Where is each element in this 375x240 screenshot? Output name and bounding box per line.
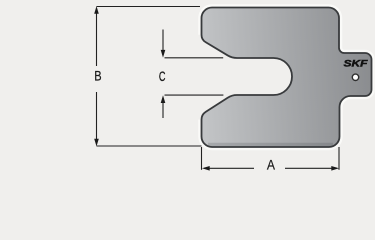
svg-text:A: A bbox=[267, 157, 275, 173]
dimension A line bbox=[204, 167, 254, 169]
dimension C arrows bbox=[162, 30, 164, 52]
extension line C bottom bbox=[165, 94, 224, 96]
extension line A right bbox=[338, 147, 340, 170]
svg-text:C: C bbox=[159, 69, 166, 84]
arrow C bottom (points up) bbox=[161, 95, 166, 103]
svg-text:B: B bbox=[94, 68, 101, 83]
arrow A right bbox=[331, 166, 339, 171]
shim plate body (slotted shim outline) bbox=[202, 8, 372, 148]
extension line top (B) bbox=[97, 6, 201, 8]
arrow C top (points down) bbox=[161, 50, 166, 58]
extension line bottom (B) bbox=[97, 145, 202, 147]
arrow B bottom bbox=[94, 139, 99, 147]
inner shading along bottom edge bbox=[208, 143, 333, 150]
svg-text:SKF: SKF bbox=[344, 59, 369, 69]
arrow A left bbox=[202, 166, 210, 171]
extension line C top bbox=[165, 57, 224, 59]
extension line A left bbox=[201, 147, 203, 170]
hole in tab bbox=[352, 74, 358, 80]
arrow B top bbox=[94, 6, 99, 14]
shim outer emboss highlight bbox=[202, 8, 372, 148]
dimension B vertical line bbox=[96, 12, 98, 66]
